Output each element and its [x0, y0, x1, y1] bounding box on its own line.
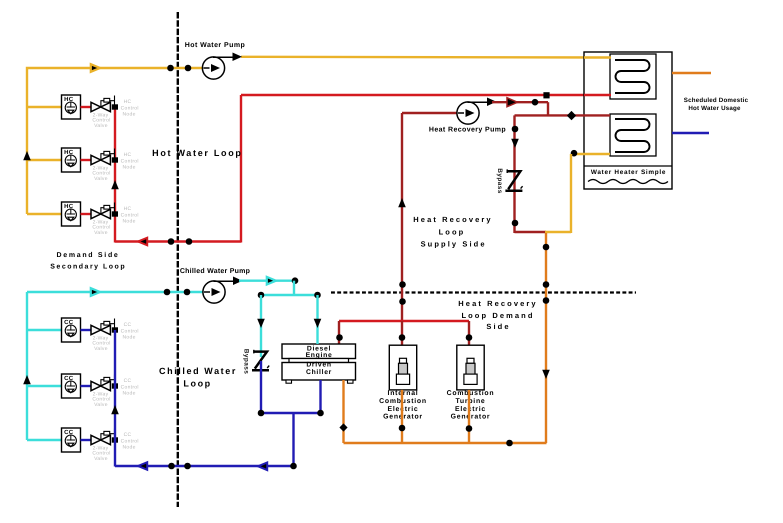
svg-text:Node: Node [123, 391, 136, 397]
svg-text:Chilled Water Pump: Chilled Water Pump [180, 267, 250, 275]
svg-text:Generator: Generator [451, 414, 491, 421]
svg-text:Side: Side [486, 322, 510, 331]
svg-text:Bypass: Bypass [243, 349, 250, 375]
svg-text:Hot Water Usage: Hot Water Usage [688, 105, 741, 112]
svg-text:Electric: Electric [455, 406, 486, 413]
svg-text:Chilled Water: Chilled Water [159, 366, 237, 376]
svg-text:Control: Control [121, 158, 139, 164]
svg-text:CC: CC [124, 378, 132, 384]
svg-text:Loop: Loop [439, 227, 466, 236]
svg-text:Turbine: Turbine [455, 398, 485, 405]
svg-text:Water Heater Simple: Water Heater Simple [591, 169, 666, 176]
svg-text:Hot Water Loop: Hot Water Loop [152, 148, 242, 158]
svg-text:Loop: Loop [183, 379, 211, 389]
svg-text:Node: Node [123, 112, 136, 118]
svg-text:Valve: Valve [94, 456, 108, 462]
svg-text:Driven: Driven [306, 361, 331, 368]
svg-text:Valve: Valve [94, 176, 108, 182]
svg-text:CC: CC [124, 432, 132, 438]
svg-text:Hot Water Pump: Hot Water Pump [185, 42, 246, 49]
svg-text:Loop Demand: Loop Demand [461, 311, 534, 320]
svg-text:HC: HC [124, 99, 132, 105]
svg-text:Supply Side: Supply Side [421, 240, 487, 249]
svg-text:Bypass: Bypass [496, 168, 503, 194]
svg-text:Node: Node [123, 445, 136, 451]
svg-text:Valve: Valve [94, 230, 108, 236]
svg-text:Node: Node [123, 219, 136, 225]
svg-text:HC: HC [124, 152, 132, 158]
svg-text:Control: Control [121, 105, 139, 111]
svg-text:Heat Recovery: Heat Recovery [413, 215, 492, 224]
svg-text:Valve: Valve [94, 123, 108, 129]
svg-text:Chiller: Chiller [306, 369, 332, 376]
svg-text:Combustion: Combustion [447, 390, 495, 397]
svg-text:Demand Side: Demand Side [56, 251, 119, 259]
svg-text:Control: Control [121, 328, 139, 334]
svg-text:Control: Control [121, 212, 139, 218]
svg-text:Heat Recovery: Heat Recovery [458, 299, 537, 308]
svg-text:Node: Node [123, 335, 136, 341]
svg-text:CC: CC [124, 322, 132, 328]
svg-text:Valve: Valve [94, 402, 108, 408]
svg-text:Scheduled Domestic: Scheduled Domestic [684, 97, 749, 104]
svg-text:Control: Control [121, 438, 139, 444]
svg-text:Valve: Valve [94, 346, 108, 352]
svg-text:Control: Control [121, 384, 139, 390]
svg-text:HC: HC [124, 206, 132, 212]
svg-text:Secondary Loop: Secondary Loop [50, 263, 126, 271]
svg-text:Engine: Engine [306, 352, 333, 359]
svg-text:Node: Node [123, 165, 136, 171]
svg-text:Heat Recovery Pump: Heat Recovery Pump [429, 127, 506, 134]
